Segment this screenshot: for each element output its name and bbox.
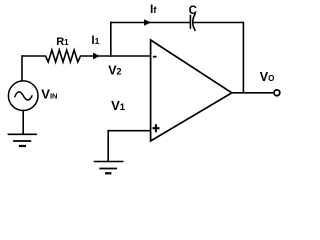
svg-text:V2: V2 (108, 63, 121, 77)
svg-text:I1: I1 (91, 35, 99, 47)
svg-text:C: C (189, 5, 197, 17)
svg-text:V1: V1 (111, 98, 126, 113)
svg-text:R1: R1 (56, 36, 69, 48)
svg-text:VO: VO (260, 70, 275, 84)
svg-text:If: If (150, 2, 157, 16)
svg-text:VIN: VIN (41, 87, 57, 102)
